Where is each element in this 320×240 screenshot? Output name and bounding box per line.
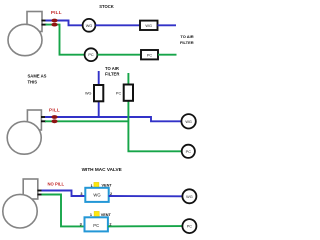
svg-text:FILTER: FILTER bbox=[105, 72, 119, 77]
pill restrictor on green wire bbox=[51, 23, 57, 27]
svg-text:PC: PC bbox=[187, 225, 193, 229]
carburetor body (bottom section) bbox=[3, 179, 38, 228]
wire green: PC filter to air filter bbox=[158, 54, 177, 56]
svg-text:WG: WG bbox=[85, 92, 92, 96]
inline filter PC (top) bbox=[141, 50, 158, 59]
wire green: PC gauge to PC filter bbox=[97, 54, 141, 56]
svg-text:3: 3 bbox=[80, 222, 82, 226]
svg-text:PC: PC bbox=[88, 53, 94, 57]
svg-text:3: 3 bbox=[80, 192, 82, 196]
wire green horizontal: carb to down-line (middle) bbox=[45, 120, 128, 122]
gauge circle WG (top) bbox=[83, 19, 96, 32]
pill restrictor on blue (middle) bbox=[51, 115, 57, 119]
carburetor body (middle section) bbox=[7, 110, 41, 154]
svg-text:WITH MAC VALVE: WITH MAC VALVE bbox=[82, 167, 122, 172]
gauge circle PC (top) bbox=[85, 48, 98, 61]
wire blue: carb to MAC valve WG bbox=[42, 191, 86, 197]
pill restrictor on blue wire bbox=[51, 19, 57, 23]
svg-text:STOCK: STOCK bbox=[99, 4, 114, 9]
pill restrictor on green (middle) bbox=[51, 119, 57, 123]
svg-text:TO AIR: TO AIR bbox=[105, 66, 119, 71]
nipple stub blue (bottom) bbox=[38, 190, 43, 192]
svg-text:WG: WG bbox=[86, 24, 93, 28]
svg-text:VENT: VENT bbox=[101, 213, 112, 217]
wire blue: WG filter to air filter bbox=[158, 24, 177, 26]
svg-text:NO PILL: NO PILL bbox=[48, 181, 65, 186]
wire blue: WG gauge to WG filter bbox=[95, 24, 140, 26]
wire blue: carb to WG gauge bbox=[46, 21, 83, 26]
gauge circle PC (bottom right) bbox=[182, 219, 196, 233]
svg-text:WG: WG bbox=[145, 24, 152, 28]
carburetor body (top section) bbox=[8, 12, 42, 56]
svg-text:THIS: THIS bbox=[28, 80, 38, 85]
svg-text:WG: WG bbox=[93, 193, 100, 198]
nipple stub green (middle) bbox=[41, 120, 46, 122]
nipple stub green (bottom) bbox=[38, 194, 43, 196]
svg-text:PC: PC bbox=[93, 223, 99, 228]
svg-text:PILL: PILL bbox=[49, 108, 60, 113]
svg-text:WG: WG bbox=[185, 120, 192, 124]
wire blue horizontal: carb to WG gauge (middle) bbox=[45, 117, 181, 121]
svg-text:FILTER: FILTER bbox=[180, 40, 194, 45]
svg-text:PC: PC bbox=[186, 150, 192, 154]
MAC valve PC (bottom) bbox=[80, 211, 112, 231]
gauge circle PC (middle right) bbox=[182, 145, 195, 158]
svg-text:1: 1 bbox=[90, 213, 92, 217]
nipple stub top (blue port) bbox=[42, 20, 47, 22]
wire green vertical: air filter through restrictor down to PC gauge (middle) bbox=[128, 73, 182, 151]
MAC valve WG (bottom) bbox=[80, 182, 112, 202]
gauge circle WG (middle right) bbox=[181, 114, 195, 128]
gauge circle WG (bottom right) bbox=[182, 189, 196, 203]
inline filter WG (top) bbox=[140, 21, 158, 30]
wire green: carb down and to PC gauge bbox=[46, 25, 85, 55]
nipple stub bottom (green port) bbox=[42, 24, 47, 26]
svg-text:TO AIR: TO AIR bbox=[180, 34, 193, 39]
svg-text:PC: PC bbox=[147, 53, 153, 57]
svg-text:SAME AS: SAME AS bbox=[28, 74, 47, 79]
nipple stub blue (middle) bbox=[41, 116, 46, 118]
wire blue: MAC valve WG to gauge bbox=[109, 195, 183, 197]
restrictor PC vertical (middle) bbox=[116, 85, 133, 101]
svg-text:VENT: VENT bbox=[102, 183, 113, 187]
restrictor WG vertical (middle) bbox=[85, 85, 103, 101]
svg-text:PILL: PILL bbox=[51, 10, 62, 15]
svg-text:1: 1 bbox=[91, 184, 93, 188]
wire green: carb down to MAC valve PC bbox=[42, 195, 85, 227]
svg-text:PC: PC bbox=[116, 92, 122, 96]
wire green: MAC valve PC to gauge bbox=[108, 225, 182, 227]
wire blue vertical: air filter to restrictor to line (middle) bbox=[98, 71, 100, 117]
svg-text:WG: WG bbox=[186, 195, 193, 199]
